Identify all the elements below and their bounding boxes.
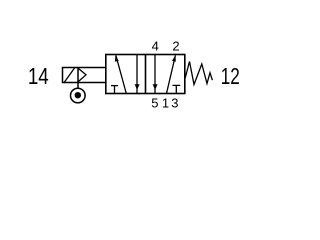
svg-text:5: 5	[151, 96, 158, 111]
svg-text:4: 4	[152, 39, 159, 54]
left square: flow path 2->3	[136, 55, 138, 94]
right square: flow path 1->2	[167, 55, 176, 93]
right square: flow path 4->5	[154, 55, 156, 94]
coil diagonal slash	[65, 68, 75, 82]
valve body	[106, 55, 185, 94]
return spring	[185, 62, 212, 85]
arrowhead down (4->5)	[153, 84, 158, 90]
wire to manual override	[77, 83, 79, 89]
left square: blocked port 5 (T)	[111, 86, 118, 94]
position divider	[145, 55, 147, 94]
arrowhead up (1->2)	[172, 55, 176, 62]
arrowhead up (1->4)	[115, 55, 119, 62]
svg-text:2: 2	[172, 39, 179, 54]
svg-text:12: 12	[221, 64, 240, 90]
svg-text:1: 1	[162, 96, 169, 111]
solenoid coil box	[63, 68, 106, 83]
pilot triangle	[78, 68, 86, 82]
left square: flow path 1->4	[116, 55, 126, 93]
manual override dot	[75, 92, 81, 98]
arrowhead down (2->3)	[135, 84, 140, 90]
svg-text:14: 14	[28, 63, 49, 90]
manual override circle	[71, 88, 86, 103]
svg-text:3: 3	[171, 96, 178, 111]
right square: blocked port 3 (T)	[173, 85, 181, 93]
